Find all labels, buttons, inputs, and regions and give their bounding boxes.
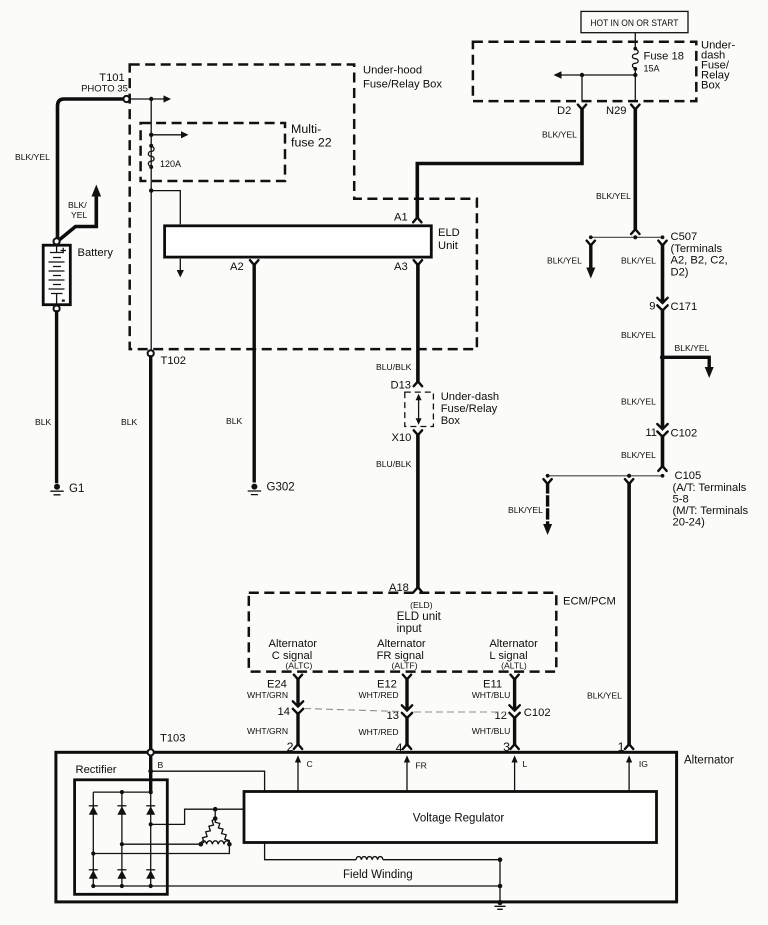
svg-text:Multi-: Multi- — [291, 122, 321, 136]
svg-text:BLK: BLK — [35, 417, 52, 427]
battery B1 — [43, 245, 70, 305]
fuse 18 element 15A — [633, 47, 637, 51]
under-dash fuse/relay box top (dashed) — [473, 42, 696, 101]
svg-text:BLK/YEL: BLK/YEL — [621, 256, 656, 266]
svg-text:WHT/GRN: WHT/GRN — [247, 726, 288, 736]
wire E11 WHT/BLU — [513, 679, 516, 707]
wire phase tap 1 to stator/VR — [151, 809, 244, 824]
node T103 terminal circle — [148, 749, 154, 755]
svg-text:Fuse 18: Fuse 18 — [644, 51, 684, 63]
ground G302 — [251, 484, 257, 490]
svg-text:(ALTF): (ALTF) — [392, 661, 418, 671]
connector C105 to IG wire — [625, 479, 633, 484]
wire BLK/YEL to alternator terminal 1 — [627, 484, 631, 744]
node field winding junction — [498, 857, 503, 862]
svg-text:(M/T: Terminals: (M/T: Terminals — [673, 505, 749, 517]
connector 9 C171 (in-line) — [657, 298, 667, 311]
svg-text:120A: 120A — [160, 159, 181, 169]
wire BLK/YEL to C102 — [661, 357, 665, 426]
diode D-low-1 — [89, 869, 98, 871]
svg-text:ELD: ELD — [438, 227, 460, 239]
svg-text:BLK/: BLK/ — [68, 200, 87, 210]
wire arrow to left inside box — [561, 74, 635, 76]
svg-text:15A: 15A — [644, 64, 660, 74]
diode D-up-2 — [117, 805, 126, 807]
svg-text:IG: IG — [639, 759, 648, 769]
wire T102 to T103 BLK — [149, 357, 152, 750]
terminal L arrow inside — [514, 761, 516, 792]
svg-text:20-24): 20-24) — [673, 517, 706, 529]
node junction with right branch — [660, 355, 665, 360]
svg-text:G302: G302 — [267, 482, 295, 494]
wire BLK/YEL to C171 — [661, 245, 665, 300]
node junction — [149, 97, 153, 101]
wire D2 BLK/YEL down-left to A1 — [417, 109, 582, 217]
svg-text:BLU/BLK: BLU/BLK — [376, 459, 412, 469]
node junction with arrow — [149, 133, 153, 137]
connector A2 — [250, 260, 258, 265]
svg-text:BLK/YEL: BLK/YEL — [675, 343, 710, 353]
wire down to T102 — [150, 191, 152, 350]
svg-text:Voltage Regulator: Voltage Regulator — [413, 813, 505, 825]
connector X10 — [414, 430, 422, 435]
connector C507 main continuation — [658, 241, 666, 246]
svg-text:T103: T103 — [160, 733, 186, 745]
svg-text:BLU/BLK: BLU/BLK — [376, 362, 412, 372]
svg-text:BLK/YEL: BLK/YEL — [587, 691, 622, 701]
svg-text:14: 14 — [278, 706, 290, 718]
svg-text:11: 11 — [645, 427, 657, 439]
svg-text:C105: C105 — [675, 470, 702, 482]
svg-text:E24: E24 — [267, 679, 287, 691]
svg-text:Battery: Battery — [78, 247, 114, 259]
svg-text:L: L — [523, 759, 528, 769]
wire field winding — [265, 843, 356, 860]
svg-text:C: C — [307, 759, 313, 769]
alternator box — [56, 752, 677, 902]
connector terminal 3 — [510, 744, 518, 749]
connector N29 end at C507 — [631, 229, 639, 234]
svg-text:Alternator: Alternator — [269, 638, 318, 650]
svg-text:BLK/YEL: BLK/YEL — [621, 330, 656, 340]
wire BLK/YEL to junction — [661, 311, 665, 358]
connector terminal 1 — [625, 744, 633, 749]
wire N29 drop — [634, 75, 636, 101]
connector D13 — [414, 381, 422, 386]
connector + dashed arrow C105 left branch BLK/YEL — [543, 479, 551, 484]
stator delta winding — [213, 807, 218, 812]
connector N29 — [631, 105, 639, 110]
svg-text:9: 9 — [649, 301, 655, 313]
svg-text:B: B — [158, 760, 164, 770]
svg-text:Under-dash: Under-dash — [441, 391, 499, 403]
svg-text:Unit: Unit — [438, 240, 459, 252]
wire BLK/YEL to C105 — [661, 437, 665, 466]
svg-text:D13: D13 — [391, 380, 412, 392]
diode D-low-3 — [146, 869, 155, 871]
svg-text:C507: C507 — [671, 231, 698, 243]
svg-text:Alternator: Alternator — [684, 755, 734, 767]
svg-text:C171: C171 — [671, 301, 698, 313]
svg-text:D2: D2 — [557, 105, 571, 117]
svg-text:A2: A2 — [230, 261, 244, 273]
terminal IG arrow inside — [628, 761, 630, 792]
wire 12 to terminal 3 WHT/BLU — [513, 718, 516, 744]
svg-text:input: input — [397, 623, 423, 635]
svg-text:Fuse/Relay: Fuse/Relay — [441, 403, 498, 415]
svg-text:PHOTO 35: PHOTO 35 — [81, 84, 128, 95]
wire right branch arrow BLK/YEL — [663, 357, 710, 367]
svg-text:BLK: BLK — [121, 417, 138, 427]
wire battery branch arrow BLK/YEL — [59, 196, 97, 241]
connector A3 — [414, 260, 422, 265]
svg-text:D2): D2) — [671, 266, 689, 278]
svg-text:X10: X10 — [392, 432, 412, 444]
node junction below multi-fuse — [149, 188, 153, 192]
svg-text:WHT/RED: WHT/RED — [359, 690, 399, 700]
svg-text:BLK/YEL: BLK/YEL — [596, 191, 631, 201]
wire E12 WHT/RED — [405, 679, 408, 707]
svg-text:HOT IN ON OR START: HOT IN ON OR START — [590, 18, 678, 29]
connector 13 (in-line) — [402, 705, 412, 718]
diode D-up-3 — [146, 805, 155, 807]
wire A2 to G302 BLK — [252, 265, 255, 481]
terminal C arrow inside — [297, 761, 299, 792]
svg-text:Rectifier: Rectifier — [76, 764, 117, 776]
wire branch through ELD with arrow — [151, 191, 180, 271]
wire X10 BLU/BLK down to A18 — [416, 435, 420, 587]
wire D2 drop — [581, 75, 583, 101]
wire HOT to fuse 18 — [634, 33, 636, 48]
svg-text:BLK/YEL: BLK/YEL — [508, 505, 543, 515]
svg-text:E11: E11 — [483, 679, 502, 691]
wire 14 to terminal 2 WHT/GRN — [296, 714, 299, 744]
wire N29 BLK/YEL down — [633, 109, 637, 229]
wire B into rectifier — [149, 755, 152, 792]
connector E24 — [294, 675, 302, 680]
wire battery to G1 BLK — [55, 312, 58, 482]
svg-text:Box: Box — [701, 80, 721, 92]
svg-text:(ELD): (ELD) — [410, 600, 433, 610]
svg-text:BLK/YEL: BLK/YEL — [621, 397, 656, 407]
svg-text:YEL: YEL — [71, 210, 87, 220]
under-hood fuse/relay box (dashed) — [130, 65, 477, 350]
svg-text:Under-hood: Under-hood — [363, 65, 422, 77]
connector C105 end — [658, 466, 666, 471]
wire phase tap 3 — [93, 844, 229, 853]
svg-text:(ALTC): (ALTC) — [285, 661, 312, 671]
svg-text:A2, B2, C2,: A2, B2, C2, — [671, 255, 728, 267]
svg-text:BLK: BLK — [226, 416, 243, 426]
connector terminal 2 — [294, 744, 302, 749]
connector 14 (in-line) — [293, 701, 303, 714]
svg-text:(Terminals: (Terminals — [671, 243, 723, 255]
node junction B — [148, 769, 153, 774]
connector terminal 4 — [403, 744, 411, 749]
svg-text:ELD unit: ELD unit — [397, 611, 442, 623]
node C105 junction bar — [548, 475, 663, 477]
svg-text:BLK/YEL: BLK/YEL — [621, 450, 656, 460]
svg-text:WHT/BLU: WHT/BLU — [472, 690, 511, 700]
svg-text:(A/T: Terminals: (A/T: Terminals — [673, 482, 747, 494]
svg-text:T101: T101 — [99, 72, 125, 84]
svg-text:Alternator: Alternator — [377, 638, 426, 650]
connector + arrow C507 left branch BLK/YEL — [587, 241, 595, 246]
voltage regulator box — [244, 792, 657, 843]
wire E24 WHT/GRN — [296, 679, 299, 703]
connector 11 C102 (in-line) — [657, 424, 667, 437]
svg-text:WHT/RED: WHT/RED — [359, 727, 399, 737]
wire B branch to voltage regulator — [151, 771, 265, 791]
svg-text:BLK/YEL: BLK/YEL — [547, 256, 582, 266]
ground G1 — [54, 484, 60, 490]
connector 12 (in-line) — [509, 705, 519, 718]
svg-text:E12: E12 — [377, 679, 397, 691]
svg-text:Box: Box — [441, 415, 461, 427]
diode D-low-2 — [117, 869, 126, 871]
node junction under fuse — [633, 73, 637, 77]
wire A3 BLU/BLK down — [416, 265, 420, 381]
connector E11 — [510, 675, 518, 680]
svg-text:A3: A3 — [394, 261, 408, 273]
wire down to multi-fuse — [150, 99, 152, 191]
wire T101 branch into box — [130, 98, 164, 100]
connector A18 — [414, 587, 422, 592]
rectifier bridge wires — [93, 792, 500, 886]
wire 13 to terminal 4 WHT/RED — [405, 718, 408, 744]
svg-text:BLK/YEL: BLK/YEL — [15, 152, 50, 162]
connector A1 — [413, 218, 421, 223]
rectifier box — [75, 780, 168, 895]
svg-text:G1: G1 — [69, 483, 84, 495]
svg-text:T102: T102 — [161, 355, 187, 367]
under-dash fuse/relay box small (dashed) — [405, 392, 434, 426]
svg-text:Fuse/Relay Box: Fuse/Relay Box — [363, 79, 442, 91]
wire phase tap 2 — [122, 843, 201, 845]
node T102 terminal circle — [148, 350, 154, 356]
ECM/PCM box (dashed) — [249, 593, 557, 672]
svg-text:5-8: 5-8 — [673, 494, 689, 506]
svg-text:Field Winding: Field Winding — [343, 869, 413, 881]
svg-text:FR: FR — [415, 761, 426, 771]
svg-text:fuse 22: fuse 22 — [291, 136, 332, 150]
wire C102 dashed link — [304, 709, 506, 713]
svg-text:(ALTL): (ALTL) — [501, 661, 527, 671]
svg-text:WHT/BLU: WHT/BLU — [472, 726, 511, 736]
multi-fuse 22 box (dashed) — [141, 123, 285, 181]
node T101 terminal circle — [123, 96, 129, 102]
terminal FR arrow inside — [406, 761, 408, 792]
svg-text:Alternator: Alternator — [489, 638, 538, 650]
svg-text:C102: C102 — [671, 428, 698, 440]
HOT IN ON OR START box — [581, 11, 688, 32]
connector D2 — [578, 105, 586, 110]
ELD unit box — [165, 226, 432, 257]
svg-text:BLK/YEL: BLK/YEL — [542, 130, 577, 140]
diode D-up-1 — [89, 805, 98, 807]
svg-text:N29: N29 — [606, 105, 627, 117]
wire battery feed to T101 — [58, 99, 126, 238]
ground alternator case — [497, 900, 502, 905]
svg-text:C102: C102 — [524, 707, 551, 719]
fuse 120A element — [149, 144, 153, 148]
connector E12 — [403, 675, 411, 680]
svg-text:A1: A1 — [394, 212, 408, 224]
svg-text:WHT/GRN: WHT/GRN — [247, 690, 288, 700]
node C507 junction bar — [591, 236, 663, 238]
svg-text:ECM/PCM: ECM/PCM — [563, 596, 616, 608]
